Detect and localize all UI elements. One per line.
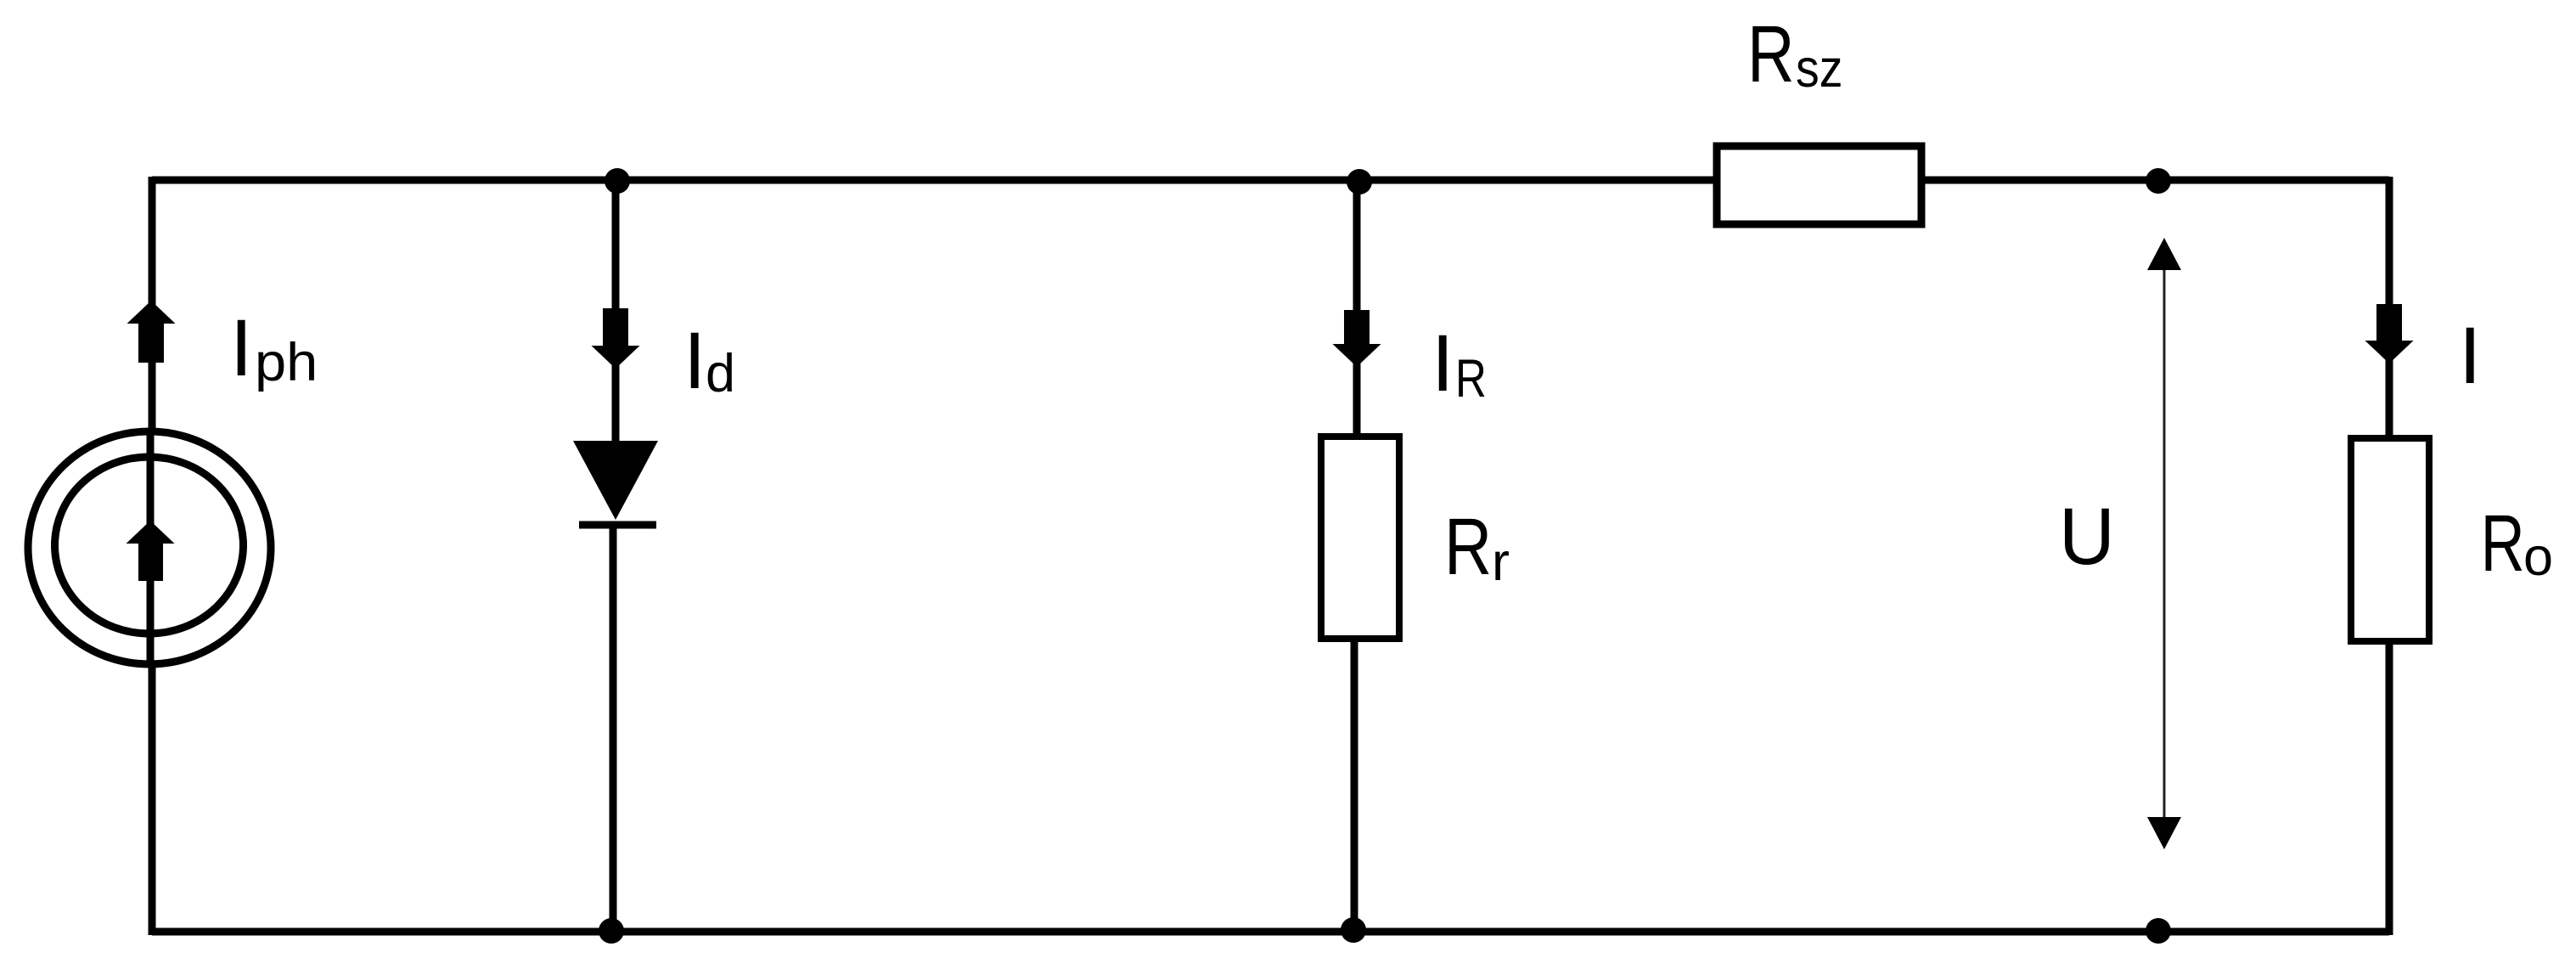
wire: bottom bus [152,928,2389,936]
svg-text:R: R [2481,498,2525,588]
label I_ph [230,303,318,393]
resistor R_r [1321,437,1399,639]
voltage arrow U (double headed) [2147,238,2181,849]
svg-text:I: I [2459,311,2481,401]
node: top U junction [2146,168,2171,194]
svg-text:R: R [1455,349,1487,409]
diode D [573,441,658,525]
wire: top bus [152,177,2389,184]
resistor R_sz [1717,146,1921,224]
wire: diode branch lower [610,521,617,932]
label R_r [1444,502,1510,592]
arrow I_ph [127,301,176,363]
arrow I (load current) [2365,304,2414,364]
label R_sz [1747,9,1842,99]
node: bottom diode junction [599,918,624,944]
label I_R [1431,318,1487,409]
current source I_ph (double circle) [28,431,271,664]
node: top diode junction [605,168,630,194]
svg-text:ph: ph [255,332,318,392]
wire: R_r branch upper [1353,180,1361,438]
svg-text:I: I [230,303,252,393]
label R_o [2481,498,2553,588]
label I_d [683,316,735,406]
svg-text:I: I [1431,318,1454,409]
svg-text:I: I [683,316,706,406]
arrow I_R [1333,310,1381,367]
wire: left vertical [149,177,156,935]
arrow I_d [592,308,640,369]
svg-text:sz: sz [1796,38,1842,99]
svg-text:d: d [706,344,735,403]
svg-text:r: r [1492,533,1510,592]
node: bottom R_r junction [1341,917,1366,943]
svg-text:U: U [2059,491,2115,581]
wire: diode branch upper [612,180,620,444]
wire: right vertical [2386,177,2393,935]
resistor R_o [2351,438,2429,641]
svg-text:R: R [1444,502,1492,592]
wire: R_r branch lower [1351,639,1358,932]
node: bottom U junction [2146,918,2171,944]
svg-text:o: o [2523,527,2553,587]
node: top R_r junction [1347,169,1372,194]
svg-text:R: R [1747,9,1795,99]
